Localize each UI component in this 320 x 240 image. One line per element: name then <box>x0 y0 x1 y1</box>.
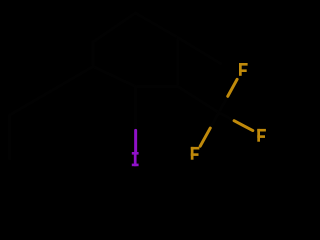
ring bond C6-C5 <box>92 42 95 67</box>
ring bond C4-C3 <box>135 13 177 38</box>
bond C-F right fluorine half <box>234 121 253 131</box>
atom label I <box>132 152 139 166</box>
atom label F right <box>257 129 266 142</box>
bond C3-CH3 methyl <box>178 38 221 64</box>
bond CH2-CH2 propyl b <box>10 91 52 115</box>
ring bond C5-C4 <box>93 13 135 42</box>
ring bond C1-C6 <box>93 67 136 87</box>
canvas background <box>0 0 300 176</box>
bond C-F top fluorine half <box>228 79 237 96</box>
bond CH2-CH3 propyl c <box>8 115 11 159</box>
bond C-F bottom carbon half <box>210 113 219 128</box>
atom label F top <box>239 63 248 76</box>
bond C-F right carbon half <box>219 113 234 121</box>
bond C1-I carbon half <box>134 87 137 131</box>
ring bond C2-C1 <box>136 85 178 88</box>
ring bond C3-C2 <box>176 38 179 87</box>
bond C2-C(CF3) <box>178 87 219 113</box>
atom label F bottom <box>191 147 200 160</box>
bond C-F top carbon half <box>219 96 228 112</box>
bond C1-I iodine half <box>134 130 137 152</box>
molecular structure drawing on black canvas <box>0 0 300 176</box>
bond C6-CH2 propyl a <box>51 67 93 91</box>
bond C-F bottom fluorine half <box>200 128 210 146</box>
